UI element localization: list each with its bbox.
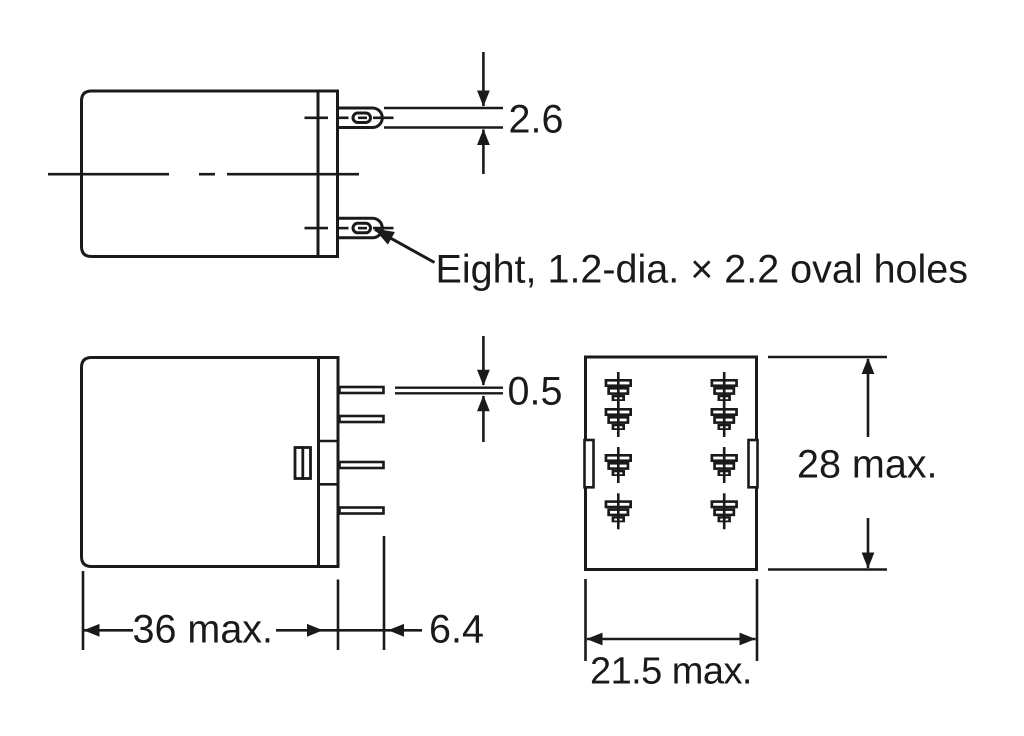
arrowhead 36max right (307, 624, 323, 637)
dimension 2.6 vertical line with arrows (482, 52, 485, 174)
terminal symbol row4 right (711, 493, 738, 529)
right rail notch (749, 440, 758, 487)
dimension 21.5 max line (587, 638, 756, 641)
svg-text:6.4: 6.4 (429, 607, 484, 651)
svg-text:Eight, 1.2-dia. × 2.2 oval hol: Eight, 1.2-dia. × 2.2 oval holes (436, 248, 969, 292)
arrowhead 2.6 down (477, 91, 490, 107)
terminal tab upper (oval hole) (338, 108, 383, 128)
svg-text:0.5: 0.5 (508, 370, 563, 414)
pin 1 (340, 387, 384, 393)
terminal symbol row3 right (711, 447, 738, 483)
dimension 28 max extension lines (768, 357, 887, 570)
dimension 21.5 max extension lines (586, 579, 758, 661)
leader arrow to oval hole (375, 230, 435, 263)
arrowhead 28max down (862, 553, 875, 569)
svg-text:28 max.: 28 max. (797, 443, 938, 487)
terminal upper centerline dashes (305, 117, 394, 120)
relay body side view outline (82, 358, 339, 567)
dimension 0.5 vertical line with arrows (482, 336, 485, 442)
flange tick lower (319, 483, 339, 486)
latch detail (295, 446, 311, 480)
flange separation line top view (317, 91, 320, 257)
left rail notch (585, 440, 594, 487)
arrowhead 2.6 up (477, 129, 490, 145)
oval hole upper center dash (358, 117, 367, 120)
dimension 28 max vertical line with arrows (867, 359, 870, 568)
dimension 2.6 extension lines (384, 108, 503, 128)
arrowhead 28max up (862, 358, 875, 374)
oval hole lower (353, 223, 371, 233)
arrowhead 21.5max right (740, 633, 756, 646)
terminal symbol row1 right (711, 372, 738, 408)
body horizontal centerline (48, 173, 359, 176)
svg-text:21.5 max.: 21.5 max. (590, 651, 752, 693)
oval hole lower center dash (358, 227, 367, 230)
terminal symbol row2 left (605, 401, 632, 437)
terminal lower centerline dashes (305, 227, 394, 230)
svg-text:2.6: 2.6 (509, 97, 564, 141)
arrowhead 21.5max left (587, 633, 603, 646)
terminal symbol row1 left (605, 372, 632, 408)
pin 4 (340, 508, 384, 514)
arrowhead 36max left (84, 624, 100, 637)
terminal symbol row3 left (605, 447, 632, 483)
dimension 36 max extension lines (83, 536, 384, 650)
arrowhead 0.5 up (477, 395, 490, 411)
relay body top view outline (82, 91, 338, 257)
pin 2 (340, 416, 384, 422)
terminal symbol row4 left (605, 493, 632, 529)
pin 3 (340, 462, 384, 468)
dimension 36 max line (83, 629, 422, 632)
terminal symbol row2 right (711, 401, 738, 437)
dimension 0.5 extension lines (395, 388, 503, 394)
flange separation line side view (317, 358, 320, 567)
bottom view outline (586, 357, 757, 570)
oval hole upper (353, 113, 371, 123)
terminal tab lower (oval hole) (338, 218, 383, 238)
arrowhead 0.5 down (477, 370, 490, 386)
arrowhead 6.4 left (388, 624, 404, 637)
svg-text:36 max.: 36 max. (133, 607, 274, 651)
flange tick upper (319, 440, 339, 443)
